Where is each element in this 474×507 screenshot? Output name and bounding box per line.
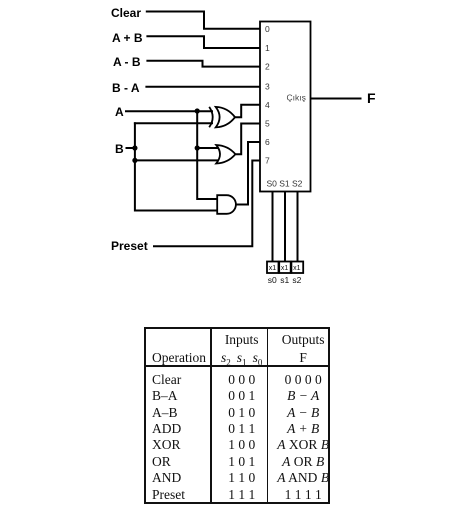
select input box s0 — [267, 262, 279, 274]
input label Preset — [111, 240, 148, 252]
input label A — [115, 106, 124, 118]
wire B bus vertical — [135, 123, 218, 210]
svg-text:x1: x1 — [293, 265, 301, 272]
wire A+B to mux input 1 — [147, 36, 259, 48]
input label B — [115, 143, 124, 155]
svg-text:1: 1 — [265, 43, 270, 53]
wire S1 select — [284, 192, 286, 262]
truth table row XOR — [152, 438, 181, 452]
wire B-A to mux input 3 — [146, 86, 259, 88]
svg-text:7: 7 — [265, 156, 270, 166]
node B junction dot — [132, 145, 137, 150]
input label A+B — [112, 32, 143, 44]
wire Clear to mux input 0 — [147, 12, 259, 29]
wire A branch to OR upper input — [197, 147, 218, 149]
svg-text:5: 5 — [265, 119, 270, 129]
wire A bus vertical to OR and AND — [197, 111, 218, 199]
truth table row AND — [152, 471, 181, 485]
select pin name labels s0 s1 s2 — [268, 275, 302, 285]
wire A-B to mux input 2 — [147, 61, 259, 67]
XOR gate input arc — [209, 107, 213, 127]
truth table row ADD — [152, 422, 181, 436]
select input box s2 — [291, 262, 303, 274]
multiplexer box — [260, 22, 311, 192]
select input box s1 — [279, 262, 291, 274]
truth table row B-A — [152, 389, 178, 403]
svg-text:0: 0 — [265, 24, 270, 34]
truth table row Preset — [152, 488, 185, 502]
input label Clear — [111, 7, 141, 19]
truth table row OR — [152, 455, 171, 469]
mux pin number labels — [265, 24, 270, 166]
wire A to XOR upper input — [126, 110, 212, 112]
wire Preset to mux input 7 — [154, 161, 259, 247]
svg-text:s2: s2 — [292, 275, 301, 285]
truth table row Clear — [152, 373, 181, 387]
truth table column divider 2 — [267, 327, 269, 503]
truth table header texts — [225, 333, 259, 347]
truth table column divider 1 — [210, 327, 212, 503]
wire B branch to OR lower input — [135, 159, 219, 161]
wire S2 select — [297, 192, 299, 262]
node B-to-OR junction dot — [132, 158, 137, 163]
AND gate U3 body — [217, 195, 236, 214]
wire F output — [311, 98, 361, 100]
svg-text:4: 4 — [265, 100, 270, 110]
truth table frame — [144, 327, 330, 504]
svg-text:2: 2 — [265, 62, 270, 72]
output label F — [367, 91, 376, 105]
wire B stub — [127, 147, 135, 149]
wire AND output to mux input 6 — [236, 142, 259, 205]
svg-text:x1: x1 — [269, 265, 277, 272]
wire B branch to XOR lower input — [135, 122, 212, 124]
svg-text:Çıkış: Çıkış — [287, 93, 306, 103]
svg-text:S0 S1 S2: S0 S1 S2 — [267, 179, 303, 189]
select box value labels x1 — [269, 265, 301, 272]
wire OR output to mux input 5 — [234, 124, 259, 155]
truth table row A-B — [152, 406, 178, 420]
input label A-B — [113, 56, 141, 68]
node A-to-OR junction dot — [195, 145, 200, 150]
svg-text:s0: s0 — [268, 275, 277, 285]
svg-text:3: 3 — [265, 82, 270, 92]
svg-text:s1: s1 — [280, 275, 289, 285]
truth table header separator — [144, 365, 330, 367]
input label B-A — [112, 82, 140, 94]
wire XOR output to mux input 4 — [235, 105, 259, 117]
wire S0 select — [272, 192, 274, 262]
node A junction dot — [195, 108, 200, 113]
XOR gate U1 body — [216, 107, 235, 128]
OR gate U2 body — [216, 145, 235, 164]
svg-text:x1: x1 — [281, 265, 289, 272]
svg-text:6: 6 — [265, 137, 270, 147]
